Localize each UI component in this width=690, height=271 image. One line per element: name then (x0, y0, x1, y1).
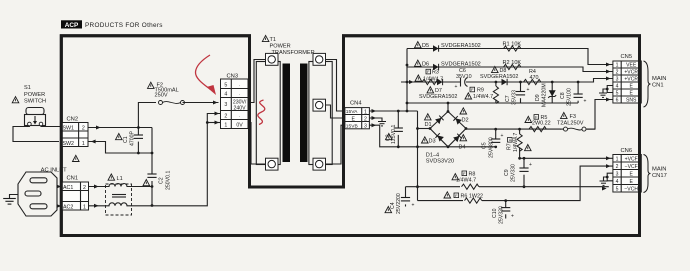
svg-text:R3: R3 (432, 70, 439, 76)
svg-text:2: 2 (616, 70, 619, 76)
svg-text:5: 5 (224, 83, 227, 89)
svg-text:4: 4 (616, 84, 619, 90)
svg-text:470: 470 (530, 75, 539, 81)
svg-text:35V10: 35V10 (456, 74, 472, 80)
svg-text:+: + (501, 133, 504, 139)
svg-text:+VCF: +VCF (625, 156, 638, 162)
svg-text:R6 1W22: R6 1W22 (461, 194, 483, 200)
svg-text:1: 1 (82, 141, 85, 147)
svg-text:POWER: POWER (24, 92, 45, 98)
svg-text:+VCR: +VCR (624, 70, 638, 76)
svg-text:MAIN: MAIN (652, 76, 667, 82)
svg-text:CN6: CN6 (621, 148, 633, 154)
svg-text:250V0.1: 250V0.1 (166, 171, 172, 190)
svg-text:25V330: 25V330 (511, 164, 517, 182)
svg-text:D4: D4 (459, 144, 466, 150)
svg-text:ACP: ACP (65, 22, 79, 29)
svg-text:2: 2 (224, 114, 227, 120)
svg-text:15VA: 15VA (346, 109, 358, 115)
svg-text:C9: C9 (504, 169, 510, 176)
svg-text:1/4W4.7: 1/4W4.7 (456, 178, 476, 184)
svg-text:+: + (455, 84, 458, 90)
svg-text:3: 3 (616, 77, 619, 83)
svg-text:D5: D5 (422, 43, 429, 49)
svg-text:SWITCH: SWITCH (24, 99, 46, 105)
svg-text:SVDGERA1502: SVDGERA1502 (441, 43, 481, 49)
svg-text:D9: D9 (535, 94, 541, 101)
svg-text:D6: D6 (422, 62, 429, 68)
svg-text:1/4W4.7: 1/4W4.7 (423, 76, 443, 82)
svg-text:D1: D1 (425, 122, 432, 128)
svg-text:25V100: 25V100 (567, 88, 573, 106)
svg-text:R7: R7 (507, 143, 513, 150)
svg-text:1: 1 (224, 123, 227, 129)
svg-text:POWER: POWER (270, 43, 291, 49)
svg-text:D8: D8 (500, 68, 507, 74)
svg-text:SVDGERA1502: SVDGERA1502 (419, 94, 457, 100)
svg-text:0V: 0V (236, 123, 243, 129)
svg-text:C7: C7 (505, 95, 511, 102)
svg-text:E: E (629, 171, 633, 177)
svg-text:SVDGERA1502: SVDGERA1502 (480, 74, 518, 80)
svg-text:C10: C10 (492, 208, 498, 218)
svg-text:E: E (629, 91, 633, 97)
svg-text:D1–4: D1–4 (426, 152, 439, 158)
svg-text:2: 2 (364, 116, 367, 122)
svg-text:AC2: AC2 (63, 205, 73, 211)
svg-text:1: 1 (83, 205, 86, 211)
svg-text:F3: F3 (570, 114, 577, 120)
svg-text:L1: L1 (117, 176, 123, 182)
svg-text:CN5: CN5 (621, 54, 633, 60)
svg-text:PRODUCTS FOR Others: PRODUCTS FOR Others (85, 22, 163, 29)
svg-text:SW1: SW1 (63, 126, 75, 132)
svg-text:+VCR: +VCR (624, 77, 638, 83)
svg-text:.: . (239, 91, 240, 96)
svg-text:1/4W4.7: 1/4W4.7 (513, 133, 519, 152)
svg-text:3: 3 (364, 124, 367, 130)
svg-text:1: 1 (616, 156, 619, 162)
svg-text:−VCH: −VCH (624, 186, 638, 192)
svg-text:E: E (629, 179, 633, 185)
svg-text:MAIN: MAIN (652, 167, 667, 173)
svg-text:SNS: SNS (626, 98, 637, 104)
svg-text:5: 5 (616, 186, 619, 192)
svg-text:SVDGERA1502: SVDGERA1502 (441, 61, 481, 67)
svg-text:15VB: 15VB (346, 123, 358, 129)
svg-text:CN1: CN1 (67, 176, 79, 182)
svg-text:2: 2 (83, 185, 86, 191)
svg-text:4: 4 (224, 92, 227, 98)
svg-text:3: 3 (616, 171, 619, 177)
svg-text:25V330: 25V330 (499, 206, 505, 224)
svg-text:R1 10K: R1 10K (503, 42, 522, 48)
svg-text:35V33: 35V33 (512, 90, 518, 105)
svg-text:D2: D2 (462, 118, 469, 124)
svg-text:+: + (584, 99, 587, 105)
svg-text:.: . (239, 113, 240, 118)
svg-text:CN2: CN2 (67, 116, 79, 122)
svg-text:125V0.1: 125V0.1 (391, 125, 397, 144)
svg-text:1/4W4.7: 1/4W4.7 (473, 94, 493, 100)
svg-text:E: E (629, 84, 633, 90)
svg-text:C2: C2 (159, 177, 165, 184)
svg-text:E: E (351, 116, 355, 122)
svg-text:C8: C8 (560, 92, 566, 99)
svg-text:R8: R8 (469, 171, 476, 177)
svg-text:S1: S1 (24, 85, 31, 91)
svg-text:2W0.22: 2W0.22 (532, 121, 551, 127)
svg-text:−VCF: −VCF (625, 164, 638, 170)
svg-text:MA4220M: MA4220M (542, 83, 548, 107)
svg-text:+: + (529, 162, 532, 168)
svg-text:AC1: AC1 (63, 185, 73, 191)
svg-text:250V: 250V (155, 92, 168, 98)
svg-text:25V6800: 25V6800 (488, 137, 494, 158)
svg-text:5: 5 (616, 91, 619, 97)
svg-text:240V: 240V (234, 105, 247, 111)
svg-text:25V2200: 25V2200 (396, 193, 402, 214)
svg-text:6: 6 (616, 98, 619, 104)
svg-text:R2 10K: R2 10K (503, 60, 522, 66)
svg-text:SW2: SW2 (63, 141, 75, 147)
svg-text:4: 4 (616, 179, 619, 185)
svg-text:.: . (239, 82, 240, 87)
svg-text:C1: C1 (123, 136, 129, 143)
svg-text:+: + (527, 87, 530, 93)
svg-text:+: + (511, 214, 514, 220)
svg-text:4700P: 4700P (130, 130, 136, 146)
svg-text:SVDS3V20: SVDS3V20 (426, 159, 454, 165)
svg-text:D3: D3 (429, 139, 436, 145)
svg-text:CN4: CN4 (350, 101, 362, 107)
svg-text:2: 2 (616, 164, 619, 170)
svg-text:2: 2 (82, 126, 85, 132)
svg-text:CN17: CN17 (652, 173, 667, 179)
svg-text:T2AL250V: T2AL250V (557, 121, 584, 127)
svg-text:C5: C5 (482, 142, 488, 149)
svg-text:T1: T1 (270, 37, 277, 43)
svg-text:+: + (412, 203, 415, 209)
svg-text:3: 3 (224, 102, 227, 108)
svg-text:1: 1 (616, 63, 619, 69)
svg-text:R9: R9 (477, 88, 484, 94)
svg-text:VEE: VEE (626, 63, 637, 69)
svg-text:1: 1 (364, 109, 367, 115)
svg-text:CN1: CN1 (652, 83, 664, 89)
